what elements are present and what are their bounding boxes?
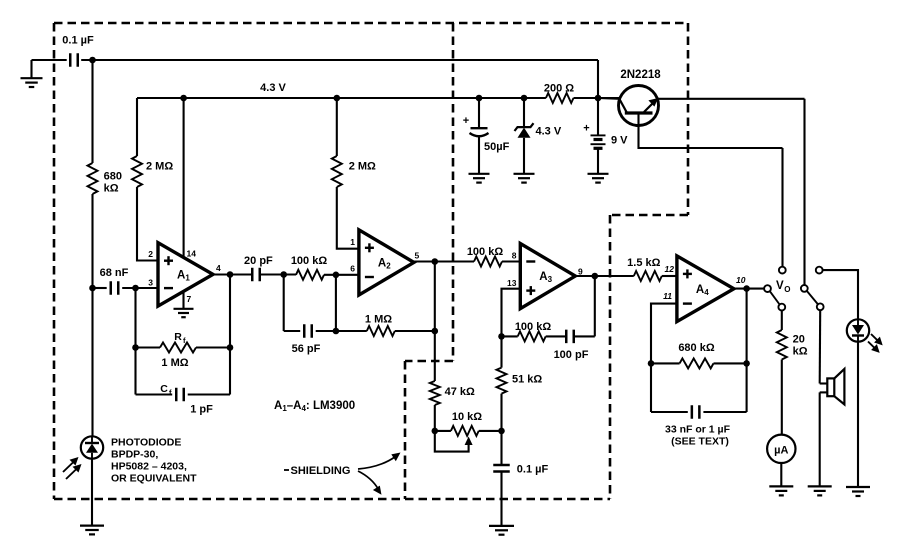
zener diode 4.3V <box>523 98 525 127</box>
battery 9V <box>597 98 599 135</box>
svg-text:0.1 µF: 0.1 µF <box>517 464 549 476</box>
svg-text:12: 12 <box>665 264 675 274</box>
resistor 200 ohm <box>546 93 574 103</box>
ground (LED) <box>846 486 870 488</box>
pot wiper arrow and loop <box>435 431 469 452</box>
transistor Q1 2N2218 <box>619 86 659 126</box>
wire 20k to meter <box>781 360 783 436</box>
svg-text:8: 8 <box>512 251 517 261</box>
wire feedback right vertical (A4) <box>746 289 748 412</box>
capacitor 100pF <box>546 335 567 337</box>
svg-text:(SEE TEXT): (SEE TEXT) <box>671 436 729 448</box>
capacitor 0.1uF (A3 bottom) <box>493 464 510 467</box>
svg-text:1 MΩ: 1 MΩ <box>365 314 392 326</box>
node A2 out <box>432 258 439 265</box>
svg-text:2 MΩ: 2 MΩ <box>146 161 173 173</box>
svg-text:2N2218: 2N2218 <box>620 69 661 81</box>
svg-text:51 kΩ: 51 kΩ <box>512 374 542 386</box>
svg-text:100 pF: 100 pF <box>554 349 589 361</box>
resistor 20k <box>777 330 787 360</box>
svg-text:20 pF: 20 pF <box>244 255 273 267</box>
node A2 pin6 <box>333 272 340 279</box>
resistor 2M (A2 bias) <box>336 98 338 156</box>
svg-text:10: 10 <box>736 275 746 285</box>
svg-text:200 Ω: 200 Ω <box>544 83 574 95</box>
terminal Vo <box>764 285 771 292</box>
svg-text:100 kΩ: 100 kΩ <box>467 246 504 258</box>
svg-text:kΩ: kΩ <box>793 346 808 358</box>
op-amp A2 <box>359 230 414 295</box>
node 1M rail right <box>432 328 439 335</box>
wire 2M to A2 pin1 <box>337 187 359 249</box>
wire to 20k <box>781 311 783 331</box>
wire A3 pin13 <box>502 289 521 368</box>
svg-text:2: 2 <box>148 249 153 259</box>
svg-text:PHOTODIODE: PHOTODIODE <box>111 437 181 449</box>
wire S2 right contact to LED <box>823 270 858 319</box>
svg-text:680 kΩ: 680 kΩ <box>678 342 715 354</box>
ground (50uF) <box>469 173 490 175</box>
svg-text:4.3 V: 4.3 V <box>536 126 562 138</box>
node Rf right <box>227 344 234 351</box>
label SHIELDING <box>284 469 289 471</box>
switch S2 right contact <box>816 267 823 274</box>
A1 pin7 ground lead <box>182 292 184 309</box>
shielding arrows <box>358 457 396 470</box>
node rail/A2 2M <box>334 95 341 102</box>
node A1 out <box>227 271 234 278</box>
resistor 1M (A2 feedback) <box>336 330 367 332</box>
shielding dashed border: right edge upper <box>687 23 690 215</box>
svg-text:kΩ: kΩ <box>104 183 119 195</box>
node 680k right <box>743 360 750 367</box>
svg-text:V: V <box>776 280 784 292</box>
wire A1 output <box>213 273 248 275</box>
shielding dashed divider: lower vertical <box>404 361 407 499</box>
wire 100k to A3 pin8 <box>502 260 520 262</box>
wire A4 output <box>734 288 764 290</box>
svg-text:68 nF: 68 nF <box>100 267 129 279</box>
resistor 100k (A3 input) <box>474 257 502 267</box>
svg-text:100 kΩ: 100 kΩ <box>291 255 328 267</box>
capacitor 33nF/1uF <box>651 411 688 413</box>
wire A1 pin14 supply <box>183 98 185 258</box>
svg-text:1.5 kΩ: 1.5 kΩ <box>627 257 660 269</box>
LED D2 <box>847 319 869 341</box>
shielding dashed border: left edge <box>53 23 56 499</box>
resistor 47k <box>430 381 440 405</box>
svg-text:33 nF or 1 µF: 33 nF or 1 µF <box>665 424 731 436</box>
node at x=92 top wire <box>89 57 96 64</box>
node pin13/100k <box>498 333 505 340</box>
switch S1 contact from collector <box>781 148 783 267</box>
svg-text:3: 3 <box>148 278 153 288</box>
svg-text:7: 7 <box>187 294 192 304</box>
svg-text:O: O <box>784 285 790 294</box>
wire A3 output <box>575 275 634 277</box>
svg-text:f: f <box>169 388 172 397</box>
svg-text:680: 680 <box>104 171 122 183</box>
node A4 out <box>743 285 750 292</box>
wire rail corner to 2M (A1) <box>136 98 138 156</box>
ground (meter) <box>769 485 793 487</box>
svg-text:13: 13 <box>507 278 517 288</box>
wire 0.1uF to ground <box>500 472 502 526</box>
node rail/50uF <box>476 95 483 102</box>
svg-text:1: 1 <box>350 237 355 247</box>
ground (photodiode) <box>80 524 104 526</box>
ground (zener) <box>514 173 535 175</box>
resistor Rf 1M <box>136 346 161 348</box>
wire 0.1uF to top rail corner <box>81 59 598 61</box>
switch S2 left contact <box>801 285 808 292</box>
wire 20pF to node <box>260 273 296 275</box>
capacitor 56pF branch <box>283 275 285 332</box>
wire 51k to 0.1uF <box>500 394 502 466</box>
resistor 680k <box>88 163 98 194</box>
wire 1.5k to A4 pin12 <box>662 275 677 277</box>
capacitor 20pF <box>230 273 252 275</box>
svg-text:µA: µA <box>774 444 788 456</box>
meter uA <box>767 435 795 463</box>
svg-text:5: 5 <box>415 251 420 261</box>
svg-text:+: + <box>463 115 469 127</box>
wire ground to C 0.1uF <box>32 59 67 61</box>
shielding dashed divider: middle vertical <box>452 23 455 361</box>
wire A4 pin11 <box>651 304 677 412</box>
svg-text:9 V: 9 V <box>611 135 628 147</box>
wire 100k to A2 pin6 <box>324 274 359 276</box>
svg-text:C: C <box>160 383 168 395</box>
capacitor 68nF <box>93 287 107 289</box>
resistor 51k <box>497 368 507 394</box>
ground (0.1uF bottom) <box>489 525 514 527</box>
svg-text:A1–A4: LM3900: A1–A4: LM3900 <box>274 400 355 413</box>
svg-text:1 pF: 1 pF <box>190 404 213 416</box>
svg-text:10 kΩ: 10 kΩ <box>452 411 482 423</box>
wire S2 to speaker top lead <box>819 310 822 383</box>
shielding dashed border: bottom edge <box>54 498 610 501</box>
speaker LS1 <box>820 382 828 384</box>
shielding dashed border: outer box top edge <box>54 22 688 25</box>
resistor 100k (A2 input) <box>296 270 324 280</box>
node pot right / 51k bottom <box>498 428 505 435</box>
shielding dashed border: right edge lower <box>609 215 612 499</box>
resistor 1.5k <box>634 271 662 281</box>
svg-text:2 MΩ: 2 MΩ <box>349 161 376 173</box>
node A3 out <box>592 273 599 280</box>
wire 680k to photodiode <box>91 194 93 437</box>
svg-text:BPDP-30,: BPDP-30, <box>111 449 158 461</box>
ground (A1 pin7) <box>174 308 194 310</box>
photodiode light arrows <box>63 461 75 473</box>
wire meter to ground <box>780 463 782 486</box>
node rail/zener <box>521 95 528 102</box>
wire LED to ground <box>857 342 859 488</box>
wire transistor collector lead <box>639 113 783 148</box>
switch S1 lever <box>770 291 780 304</box>
op-amp A3 <box>520 244 575 309</box>
op-amp A1 <box>158 243 213 306</box>
LED emission arrows <box>871 334 879 342</box>
node Rf left <box>132 344 139 351</box>
wire 47k to pot node <box>434 405 436 431</box>
wire 68nF to A1 pin3 <box>122 287 158 289</box>
wire photodiode to ground <box>91 459 93 526</box>
wire feedback right vertical <box>229 275 231 395</box>
wire rail to transistor base <box>598 97 620 100</box>
svg-text:4: 4 <box>216 263 221 273</box>
ground (9V) <box>588 173 609 175</box>
wire feedback left vertical <box>134 288 136 395</box>
wire 100pF up to A3 out <box>594 276 596 336</box>
node 56pF tap <box>280 271 287 278</box>
shielding dashed border: step at y=215 <box>610 214 688 217</box>
resistor 100k (A3 feedback) <box>502 335 518 337</box>
svg-text:50µF: 50µF <box>484 141 510 153</box>
node rail/A1 pin14 <box>180 95 187 102</box>
wire transistor emitter right <box>658 98 805 100</box>
svg-text:A4: A4 <box>696 284 709 297</box>
switch S1 lower contact <box>778 304 785 311</box>
svg-text:14: 14 <box>187 249 197 259</box>
node rail/9V <box>595 95 602 102</box>
capacitor 50uF electrolytic <box>478 98 480 128</box>
potentiometer 10k <box>435 430 451 432</box>
svg-text:SHIELDING: SHIELDING <box>291 465 351 477</box>
wire A2 out down to 47k <box>434 262 436 382</box>
shielding dashed divider: jog horizontal <box>405 360 453 363</box>
svg-text:47 kΩ: 47 kΩ <box>445 386 475 398</box>
op-amp A4 <box>677 256 734 322</box>
svg-text:11: 11 <box>663 291 672 301</box>
ground (speaker) <box>808 485 832 487</box>
wire photodiode column upper <box>91 60 93 163</box>
wire emitter line down to switch S2 <box>803 99 805 285</box>
wire speaker to ground <box>819 392 821 486</box>
wire top rail corner down to 9V node <box>597 60 599 98</box>
node pot left <box>432 428 439 435</box>
svg-text:HP5082 – 4203,: HP5082 – 4203, <box>111 461 187 473</box>
resistor 2M (A1 bias) <box>132 156 142 187</box>
svg-text:6: 6 <box>350 264 355 274</box>
svg-text:0.1 µF: 0.1 µF <box>62 35 94 47</box>
wire pin6 down <box>335 275 337 331</box>
svg-text:R: R <box>174 331 182 343</box>
svg-text:4.3 V: 4.3 V <box>260 82 286 94</box>
svg-text:100 kΩ: 100 kΩ <box>515 321 552 333</box>
svg-text:A1: A1 <box>177 269 190 282</box>
node 680k left <box>648 360 655 367</box>
wire A2 output <box>414 260 474 262</box>
resistor 680k (A4 feedback) <box>651 362 680 364</box>
photodiode D1 <box>81 436 103 458</box>
switch S2 lever <box>807 291 818 305</box>
node 1M rail left <box>333 328 340 335</box>
node feedback tap <box>132 285 139 292</box>
wire 4.3V supply rail <box>137 97 546 99</box>
svg-text:20: 20 <box>793 334 805 346</box>
capacitor Cf 1pF <box>136 393 173 395</box>
svg-text:A2: A2 <box>378 257 391 270</box>
svg-text:OR EQUIVALENT: OR EQUIVALENT <box>111 473 197 485</box>
switch S2 lower contact <box>817 303 824 310</box>
capacitor 0.1uF (top-left) <box>69 53 72 67</box>
node 68nF junction <box>89 285 96 292</box>
svg-text:56 pF: 56 pF <box>292 343 321 355</box>
wire 2M to A1 pin2 <box>137 187 158 261</box>
svg-text:A3: A3 <box>539 271 552 284</box>
svg-text:1 MΩ: 1 MΩ <box>161 357 188 369</box>
ground (top-left, at 0.1uF) <box>30 60 32 78</box>
svg-text:+: + <box>583 123 589 135</box>
